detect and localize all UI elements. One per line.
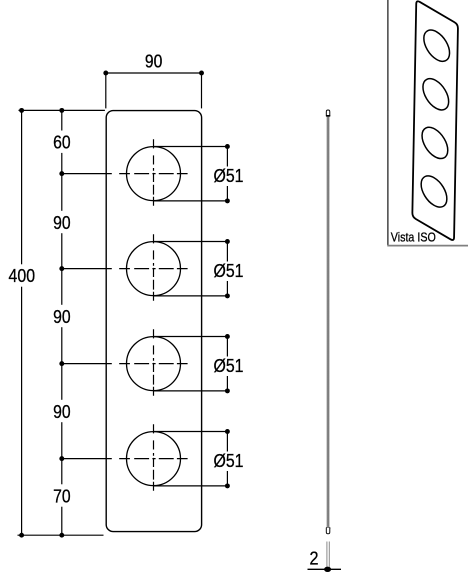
hole 1 horizontal centerline bbox=[119, 173, 187, 175]
hole 1 circle bbox=[127, 147, 181, 201]
svg-text:Ø51: Ø51 bbox=[214, 166, 244, 186]
dimension 90 extension line right bbox=[201, 73, 203, 108]
left chain dot bottom bbox=[59, 533, 64, 538]
diameter dim 4 dot top bbox=[225, 429, 230, 434]
hole 2 vertical centerline bbox=[153, 234, 155, 300]
iso hole ellipse 2 bbox=[423, 73, 449, 115]
iso plate outline bbox=[412, 1, 458, 240]
side view top band bbox=[326, 115, 330, 117]
iso frame left border bbox=[387, 0, 389, 245]
plate front view outline bbox=[106, 111, 201, 532]
dimension 400 top tie line bbox=[19, 109, 105, 111]
left chain vertical line bbox=[61, 110, 63, 535]
diameter dim 1 vertical line bbox=[226, 147, 228, 201]
side view bottom cap bbox=[326, 528, 330, 534]
hole 4 vertical centerline bbox=[153, 424, 155, 491]
side view bottom band bbox=[326, 527, 330, 529]
dimension 60 text halo bbox=[50, 131, 73, 153]
dimension 400 text halo bbox=[8, 264, 37, 286]
left chain dot top bbox=[59, 108, 64, 113]
hole 3 circle bbox=[127, 337, 181, 391]
thickness extension line left bbox=[326, 542, 328, 569]
svg-text:90: 90 bbox=[53, 307, 71, 327]
left chain row2 leader bbox=[62, 268, 112, 270]
svg-text:Ø51: Ø51 bbox=[214, 451, 244, 471]
iso hole ellipse 1 bbox=[424, 24, 450, 66]
svg-text:Vista ISO: Vista ISO bbox=[391, 230, 436, 245]
hole 4 horizontal centerline bbox=[119, 458, 187, 460]
iso frame bottom border bbox=[387, 245, 468, 247]
left chain dot row3 bbox=[59, 361, 64, 366]
left chain row3 leader bbox=[62, 363, 112, 365]
svg-text:90: 90 bbox=[53, 213, 71, 233]
dimension 90 dot right bbox=[199, 71, 204, 76]
diameter dim 4 vertical line bbox=[226, 432, 228, 486]
diameter dim 2 dot top bbox=[225, 239, 230, 244]
svg-text:90: 90 bbox=[145, 52, 163, 72]
dimension 400 dot bottom bbox=[19, 533, 24, 538]
left chain dot row4 bbox=[59, 456, 64, 461]
diameter dim 1 text halo bbox=[213, 167, 244, 187]
diameter dim 2 bottom leader bbox=[154, 295, 228, 297]
diameter dim 3 text halo bbox=[213, 357, 244, 377]
diameter dim 1 top leader bbox=[154, 146, 228, 148]
diameter dim 2 text halo bbox=[213, 262, 244, 282]
diameter dim 3 top leader bbox=[154, 336, 228, 338]
dimension 400 vertical line bbox=[21, 110, 23, 536]
diameter dim 1 dot top bbox=[225, 144, 230, 149]
diameter dim 3 dot top bbox=[225, 334, 230, 339]
dimension 90b text halo bbox=[50, 305, 73, 327]
diameter dim 4 top leader bbox=[154, 431, 228, 433]
hole 2 circle bbox=[127, 242, 181, 296]
dimension 400 dot top bbox=[19, 108, 24, 113]
diameter dim 3 bottom leader bbox=[154, 390, 228, 392]
svg-text:400: 400 bbox=[9, 266, 36, 286]
diameter dim 2 top leader bbox=[154, 241, 228, 243]
dimension 90a text halo bbox=[50, 211, 73, 233]
dimension 70 text halo bbox=[50, 484, 73, 506]
iso hole ellipse 3 bbox=[422, 122, 448, 164]
diameter dim 4 bottom leader bbox=[154, 485, 228, 487]
hole 3 vertical centerline bbox=[153, 329, 155, 396]
diameter dim 1 bottom leader bbox=[154, 200, 228, 202]
dimension 90 line bbox=[106, 72, 202, 74]
left chain dot row2 bbox=[59, 266, 64, 271]
dimension 90c text halo bbox=[50, 400, 73, 422]
svg-text:Ø51: Ø51 bbox=[214, 356, 244, 376]
iso hole ellipse 4 bbox=[421, 170, 447, 212]
svg-text:60: 60 bbox=[53, 132, 71, 152]
hole 2 horizontal centerline bbox=[119, 268, 187, 270]
dimension 90 extension line left bbox=[105, 73, 107, 108]
left chain row1 leader bbox=[62, 173, 112, 175]
dimension 2 line bbox=[308, 568, 342, 570]
dimension 400 bottom tie line bbox=[18, 534, 104, 536]
diameter dim 4 dot bottom bbox=[225, 483, 230, 488]
left chain dot row1 bbox=[59, 171, 64, 176]
diameter dim 2 vertical line bbox=[226, 242, 228, 296]
diameter dim 4 text halo bbox=[213, 452, 244, 472]
svg-text:2: 2 bbox=[310, 549, 319, 569]
hole 3 horizontal centerline bbox=[119, 363, 187, 365]
hole 4 circle bbox=[127, 432, 181, 486]
hole 1 vertical centerline bbox=[153, 139, 155, 206]
svg-text:70: 70 bbox=[53, 486, 71, 506]
side view body bar bbox=[326, 116, 329, 528]
diameter dim 3 vertical line bbox=[226, 337, 228, 391]
thickness extension line right bbox=[328, 542, 330, 569]
left chain row4 leader bbox=[62, 458, 112, 460]
diameter dim 3 dot bottom bbox=[225, 388, 230, 393]
side view top cap bbox=[326, 110, 330, 116]
dimension 90 dot left bbox=[103, 71, 108, 76]
diameter dim 1 dot bottom bbox=[225, 198, 230, 203]
svg-text:90: 90 bbox=[53, 402, 71, 422]
diameter dim 2 dot bottom bbox=[225, 293, 230, 298]
dimension 2 dot bbox=[324, 567, 331, 572]
svg-text:Ø51: Ø51 bbox=[214, 261, 244, 281]
